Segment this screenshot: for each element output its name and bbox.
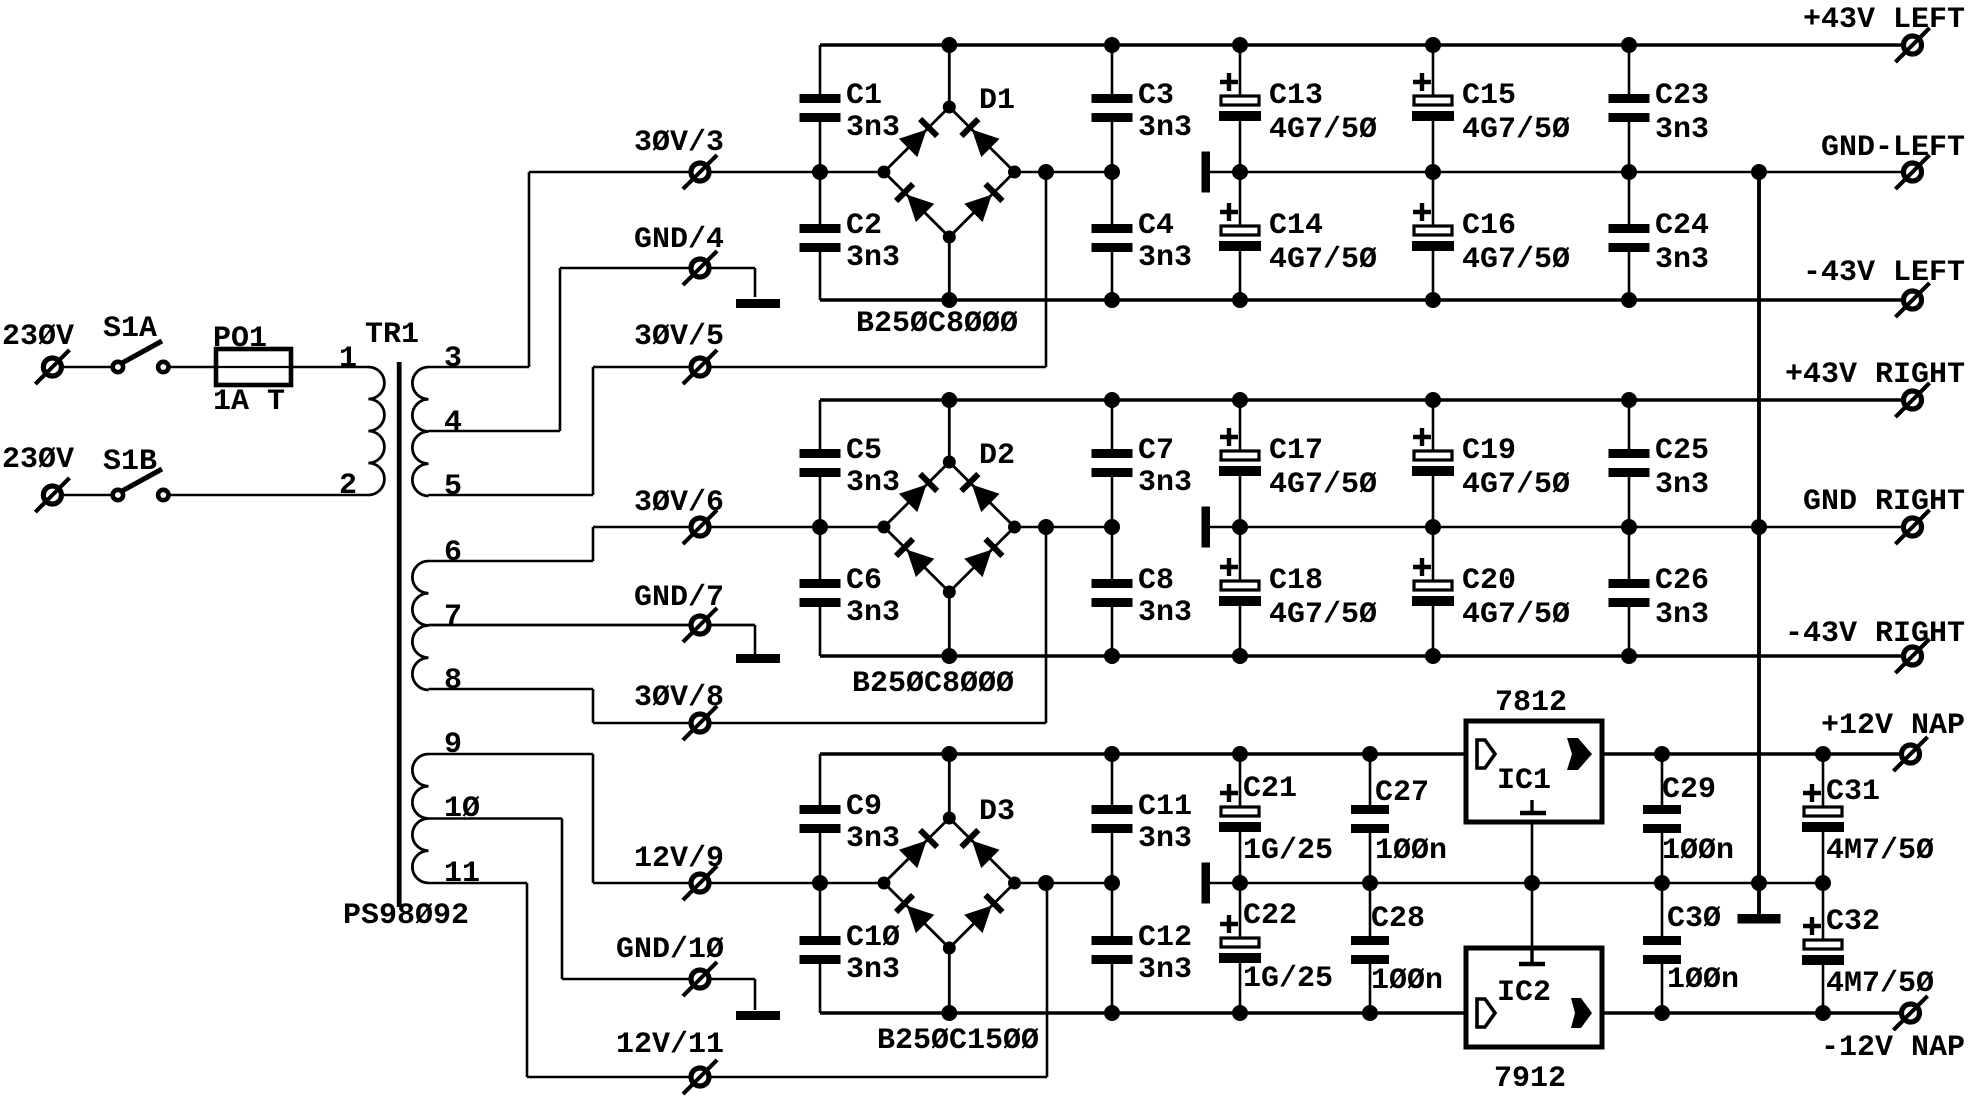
svg-text:4G7/5Ø: 4G7/5Ø <box>1462 243 1570 277</box>
svg-text:C11: C11 <box>1138 790 1192 824</box>
svg-text:3n3: 3n3 <box>1138 466 1192 500</box>
svg-text:4G7/5Ø: 4G7/5Ø <box>1462 468 1570 502</box>
svg-text:3n3: 3n3 <box>1138 822 1192 856</box>
svg-text:C28: C28 <box>1371 902 1425 936</box>
svg-text:4G7/5Ø: 4G7/5Ø <box>1269 243 1377 277</box>
svg-text:C27: C27 <box>1375 776 1429 810</box>
svg-text:GND/1Ø: GND/1Ø <box>616 933 724 967</box>
svg-text:1ØØn: 1ØØn <box>1375 834 1447 868</box>
svg-text:1G/25: 1G/25 <box>1243 834 1333 868</box>
svg-text:6: 6 <box>444 536 462 570</box>
svg-text:3ØV/6: 3ØV/6 <box>634 486 724 520</box>
svg-text:3n3: 3n3 <box>846 596 900 630</box>
svg-text:1ØØn: 1ØØn <box>1662 834 1734 868</box>
svg-text:1ØØn: 1ØØn <box>1667 963 1739 997</box>
svg-text:S1B: S1B <box>103 445 157 479</box>
svg-text:1Ø: 1Ø <box>444 792 480 826</box>
svg-text:IC2: IC2 <box>1497 976 1551 1010</box>
svg-text:3n3: 3n3 <box>846 466 900 500</box>
svg-text:4G7/5Ø: 4G7/5Ø <box>1462 113 1570 147</box>
svg-text:D2: D2 <box>979 439 1015 473</box>
svg-text:C29: C29 <box>1662 773 1716 807</box>
svg-text:4M7/5Ø: 4M7/5Ø <box>1826 834 1934 868</box>
svg-text:C7: C7 <box>1138 434 1174 468</box>
svg-text:1ØØn: 1ØØn <box>1371 964 1443 998</box>
svg-text:C6: C6 <box>846 564 882 598</box>
svg-text:C12: C12 <box>1138 921 1192 955</box>
svg-text:3n3: 3n3 <box>1138 111 1192 145</box>
svg-text:+12V NAP: +12V NAP <box>1821 709 1965 743</box>
svg-text:C3Ø: C3Ø <box>1667 902 1721 936</box>
svg-text:IC1: IC1 <box>1497 764 1551 798</box>
svg-text:C21: C21 <box>1243 772 1297 806</box>
svg-text:C1: C1 <box>846 79 882 113</box>
svg-text:3n3: 3n3 <box>1655 598 1709 632</box>
svg-text:4G7/5Ø: 4G7/5Ø <box>1269 468 1377 502</box>
svg-text:1A T: 1A T <box>213 385 285 419</box>
svg-text:C22: C22 <box>1243 899 1297 933</box>
svg-text:-43V LEFT: -43V LEFT <box>1803 256 1965 290</box>
svg-text:7: 7 <box>444 600 462 634</box>
svg-text:3n3: 3n3 <box>846 241 900 275</box>
svg-text:3n3: 3n3 <box>846 953 900 987</box>
svg-text:3n3: 3n3 <box>1138 953 1192 987</box>
svg-text:3n3: 3n3 <box>846 822 900 856</box>
svg-text:5: 5 <box>444 470 462 504</box>
svg-text:7812: 7812 <box>1495 686 1567 720</box>
svg-text:C24: C24 <box>1655 209 1709 243</box>
svg-text:11: 11 <box>444 857 480 891</box>
svg-text:B25ØC8ØØØ: B25ØC8ØØØ <box>852 667 1014 701</box>
svg-text:12V/9: 12V/9 <box>634 842 724 876</box>
svg-text:4G7/5Ø: 4G7/5Ø <box>1269 113 1377 147</box>
svg-text:GND/4: GND/4 <box>634 223 724 257</box>
svg-text:3n3: 3n3 <box>1655 243 1709 277</box>
svg-text:C25: C25 <box>1655 434 1709 468</box>
svg-text:3n3: 3n3 <box>1138 241 1192 275</box>
svg-text:C3: C3 <box>1138 79 1174 113</box>
svg-text:C2: C2 <box>846 209 882 243</box>
svg-text:4M7/5Ø: 4M7/5Ø <box>1826 967 1934 1001</box>
svg-text:GND RIGHT: GND RIGHT <box>1803 485 1965 519</box>
svg-text:4G7/5Ø: 4G7/5Ø <box>1462 598 1570 632</box>
svg-text:12V/11: 12V/11 <box>616 1028 724 1062</box>
svg-text:C26: C26 <box>1655 564 1709 598</box>
svg-text:C13: C13 <box>1269 79 1323 113</box>
svg-text:C23: C23 <box>1655 79 1709 113</box>
svg-text:8: 8 <box>444 664 462 698</box>
svg-text:+43V LEFT: +43V LEFT <box>1803 3 1965 37</box>
svg-text:23ØV: 23ØV <box>2 443 74 477</box>
svg-text:+43V RIGHT: +43V RIGHT <box>1785 358 1965 392</box>
svg-text:7912: 7912 <box>1494 1062 1566 1096</box>
svg-text:1: 1 <box>339 342 357 376</box>
svg-text:3ØV/5: 3ØV/5 <box>634 320 724 354</box>
svg-text:3ØV/3: 3ØV/3 <box>634 126 724 160</box>
svg-text:S1A: S1A <box>103 312 157 346</box>
svg-text:GND-LEFT: GND-LEFT <box>1821 131 1965 165</box>
svg-text:3n3: 3n3 <box>1138 596 1192 630</box>
svg-text:C1Ø: C1Ø <box>846 921 900 955</box>
svg-text:B25ØC8ØØØ: B25ØC8ØØØ <box>856 307 1018 341</box>
svg-text:C18: C18 <box>1269 564 1323 598</box>
svg-text:9: 9 <box>444 728 462 762</box>
svg-text:D1: D1 <box>979 84 1015 118</box>
svg-text:C9: C9 <box>846 790 882 824</box>
svg-text:-43V RIGHT: -43V RIGHT <box>1785 617 1965 651</box>
svg-text:3ØV/8: 3ØV/8 <box>634 681 724 715</box>
svg-text:B25ØC15ØØ: B25ØC15ØØ <box>877 1024 1039 1058</box>
svg-text:C17: C17 <box>1269 434 1323 468</box>
svg-text:-12V NAP: -12V NAP <box>1821 1031 1965 1065</box>
svg-text:3n3: 3n3 <box>1655 468 1709 502</box>
svg-text:TR1: TR1 <box>365 318 419 352</box>
svg-text:PS98Ø92: PS98Ø92 <box>343 899 469 933</box>
svg-text:3: 3 <box>444 342 462 376</box>
svg-text:C16: C16 <box>1462 209 1516 243</box>
svg-text:C15: C15 <box>1462 79 1516 113</box>
svg-text:2: 2 <box>339 469 357 503</box>
svg-text:PO1: PO1 <box>213 322 267 356</box>
svg-text:C5: C5 <box>846 434 882 468</box>
svg-text:C19: C19 <box>1462 434 1516 468</box>
svg-text:C31: C31 <box>1826 775 1880 809</box>
svg-text:D3: D3 <box>979 795 1015 829</box>
svg-text:C32: C32 <box>1826 905 1880 939</box>
svg-text:1G/25: 1G/25 <box>1243 962 1333 996</box>
svg-text:23ØV: 23ØV <box>2 320 74 354</box>
svg-text:C14: C14 <box>1269 209 1323 243</box>
svg-text:GND/7: GND/7 <box>634 581 724 615</box>
svg-text:C4: C4 <box>1138 209 1174 243</box>
svg-text:4: 4 <box>444 406 462 440</box>
svg-text:4G7/5Ø: 4G7/5Ø <box>1269 598 1377 632</box>
svg-text:C20: C20 <box>1462 564 1516 598</box>
svg-text:3n3: 3n3 <box>1655 113 1709 147</box>
svg-text:C8: C8 <box>1138 564 1174 598</box>
svg-text:3n3: 3n3 <box>846 111 900 145</box>
